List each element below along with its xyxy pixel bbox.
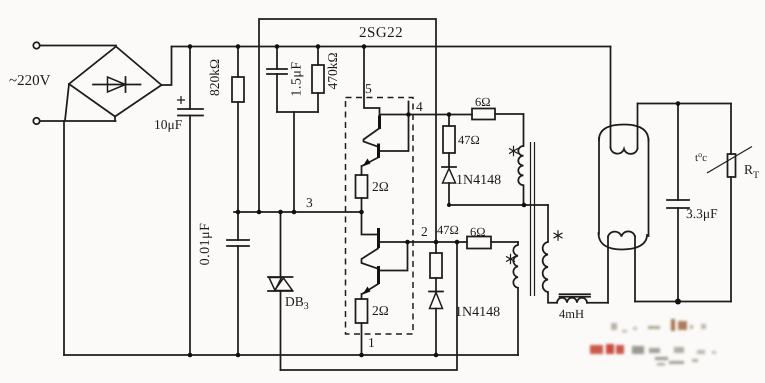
- capacitor C1 10uF: [189, 47, 191, 110]
- wire lamp top-right pin up: [637, 104, 639, 149]
- transistor Q1 base bar: [378, 116, 381, 130]
- resistor R1 820k: [237, 47, 239, 78]
- diode D (inside bridge): [93, 84, 141, 86]
- transistor Q1 emitter to Q2 base: [364, 129, 380, 147]
- node dot node3 DB3: [278, 210, 283, 215]
- svg-text:RT: RT: [744, 162, 759, 181]
- wire J1 to bridge top: [40, 45, 116, 47]
- svg-text:3.3μF: 3.3μF: [686, 206, 718, 221]
- node dot lamp bottom cap: [675, 299, 681, 305]
- transistor Q3 emitter to Q4 base: [362, 249, 379, 269]
- transistor Q4 base bar: [377, 266, 380, 284]
- capacitor C4 3.3uF: [677, 104, 679, 201]
- resistor R6 6ohm (upper): [472, 109, 495, 120]
- transistor Q2 base bar: [377, 144, 380, 159]
- transistor Q1 collector / node 4 wire: [381, 114, 473, 116]
- transistor Q2 collector riser: [381, 115, 409, 152]
- wire left vertical down: [63, 121, 65, 355]
- transistor Q4 collector riser: [380, 242, 408, 271]
- pin 4 stub: [408, 102, 410, 115]
- transformer core: [531, 142, 535, 296]
- wire top rail: [172, 46, 611, 48]
- transformer winding C (main): [543, 205, 557, 303]
- wire loop bottom 1.5uF/470k: [277, 111, 318, 113]
- watermark blur blobs: [590, 319, 716, 366]
- svg-text:6Ω: 6Ω: [470, 225, 486, 239]
- svg-text:5: 5: [365, 81, 372, 96]
- label * winding C: [554, 230, 563, 240]
- transformer winding B (filament 2): [513, 242, 518, 355]
- node dot node3 box edge: [257, 210, 262, 215]
- resistor R7 47ohm (lower): [435, 242, 437, 253]
- node 3 wire: [234, 211, 362, 213]
- wire lamp top to RT/cap: [638, 103, 732, 105]
- lamp filament bottom: [608, 231, 635, 237]
- thermistor RT: [730, 104, 732, 155]
- wire Q4 emitter to R4: [361, 294, 363, 299]
- transistor Q3 collector / node 2 start: [380, 241, 408, 243]
- resistor R4 2ohm (lower): [356, 299, 368, 323]
- node dot rail355 0.01uF: [236, 353, 241, 358]
- node dot node3 mid vertical: [292, 210, 297, 215]
- node dot rail355 10uF: [188, 353, 193, 358]
- svg-text:47Ω: 47Ω: [437, 223, 459, 237]
- wire node4/diode wire to windings: [449, 204, 548, 206]
- svg-text:6Ω: 6Ω: [475, 95, 491, 109]
- node dot rail46 470k: [316, 44, 321, 49]
- svg-text:1N4148: 1N4148: [456, 173, 501, 188]
- node dot rail355 pin1: [359, 353, 364, 358]
- wire J2 to bridge bottom: [40, 120, 116, 122]
- svg-text:~220V: ~220V: [9, 73, 51, 89]
- svg-text:1N4148: 1N4148: [455, 305, 500, 320]
- wire bridge right corner jog: [162, 47, 172, 86]
- svg-text:2: 2: [421, 224, 428, 239]
- node 2 wire: [408, 241, 468, 243]
- wire lamp bottom-right pin down: [634, 237, 636, 302]
- node dot rail46 820k: [236, 44, 241, 49]
- wire bottom rail: [64, 354, 518, 356]
- wire lamp bottom-left pin down: [607, 237, 609, 303]
- wire bridge left corner down: [65, 84, 69, 121]
- svg-text:10μF: 10μF: [154, 117, 183, 132]
- resistor R2 470k: [317, 47, 319, 66]
- terminal J2 (AC bottom): [33, 118, 39, 124]
- wire lamp feed down: [610, 47, 612, 148]
- svg-text:toc: toc: [695, 150, 707, 164]
- transistor Q3 base bar: [377, 228, 380, 248]
- node dot node2 DB3 route: [455, 240, 460, 245]
- node dot lamp top cap: [676, 101, 681, 106]
- svg-text:47Ω: 47Ω: [458, 133, 480, 147]
- label * winding A: [509, 146, 518, 156]
- wire DB3 bottom route: [281, 242, 458, 370]
- node dot rail46 1.5uF: [275, 44, 280, 49]
- inductor L1 4mH: [560, 294, 591, 296]
- svg-text:4: 4: [416, 99, 423, 114]
- capacitor C2 0.01uF: [227, 240, 249, 246]
- svg-text:1.5μF: 1.5μF: [290, 61, 305, 96]
- node dot rail46 pin5: [362, 44, 367, 49]
- resistor R5 47ohm (upper): [448, 115, 450, 127]
- svg-text:820kΩ: 820kΩ: [207, 59, 222, 96]
- wire bridge bottom stub: [114, 117, 116, 122]
- node dot 47ohm upper top: [447, 112, 452, 117]
- diode D1 1N4148 (upper): [442, 166, 456, 168]
- node dot node3 820k: [236, 210, 241, 215]
- svg-text:470kΩ: 470kΩ: [325, 52, 340, 89]
- resistor R3 2ohm (upper): [356, 175, 368, 198]
- diac DB3: [280, 212, 282, 277]
- svg-text:DB3: DB3: [285, 294, 309, 312]
- dashed box (hybrid IC internals): [346, 98, 414, 335]
- node dot rail355 diode2: [434, 353, 439, 358]
- wire lamp bottom to RT/cap: [635, 301, 731, 303]
- node dot winding A bottom: [522, 203, 527, 208]
- svg-text:1: 1: [368, 335, 375, 350]
- lamp glass envelope: [599, 125, 649, 142]
- node dot pin2: [405, 240, 410, 245]
- resistor R8 6ohm (lower): [467, 237, 491, 249]
- pin 1 lead: [361, 323, 363, 355]
- pin 5 lead: [364, 47, 380, 117]
- svg-text:3: 3: [306, 195, 313, 210]
- capacitor C3 1.5uF: [276, 47, 278, 70]
- label * winding B: [506, 254, 515, 264]
- wire mid vertical to node3: [293, 112, 295, 212]
- node dot pin4: [406, 112, 411, 117]
- node dot diode1 wire corner: [447, 203, 451, 207]
- svg-text:2Ω: 2Ω: [372, 303, 389, 318]
- node dot rail46 10uF: [188, 44, 193, 49]
- terminal J1 (AC top): [33, 42, 39, 48]
- svg-text:2SG22: 2SG22: [359, 25, 403, 41]
- node dot node3 end: [359, 210, 364, 215]
- wire Q2 emitter to R3: [361, 166, 363, 175]
- svg-text:2Ω: 2Ω: [372, 179, 389, 194]
- transistor Q4 emitter (arrow): [362, 284, 378, 294]
- svg-text:0.01μF: 0.01μF: [198, 223, 213, 266]
- wire node3 to Q3 base: [362, 212, 378, 235]
- diode D2 1N4148 (lower): [429, 291, 443, 293]
- solid box 2SG22 outline: [259, 19, 436, 242]
- transistor Q2 emitter (arrow): [362, 158, 378, 167]
- bridge rectifier diamond: [69, 47, 162, 117]
- node dot node2 47ohm: [434, 240, 439, 245]
- svg-text:4mH: 4mH: [559, 307, 584, 321]
- transformer winding A (filament 1): [518, 115, 523, 206]
- lamp filament top: [611, 148, 638, 154]
